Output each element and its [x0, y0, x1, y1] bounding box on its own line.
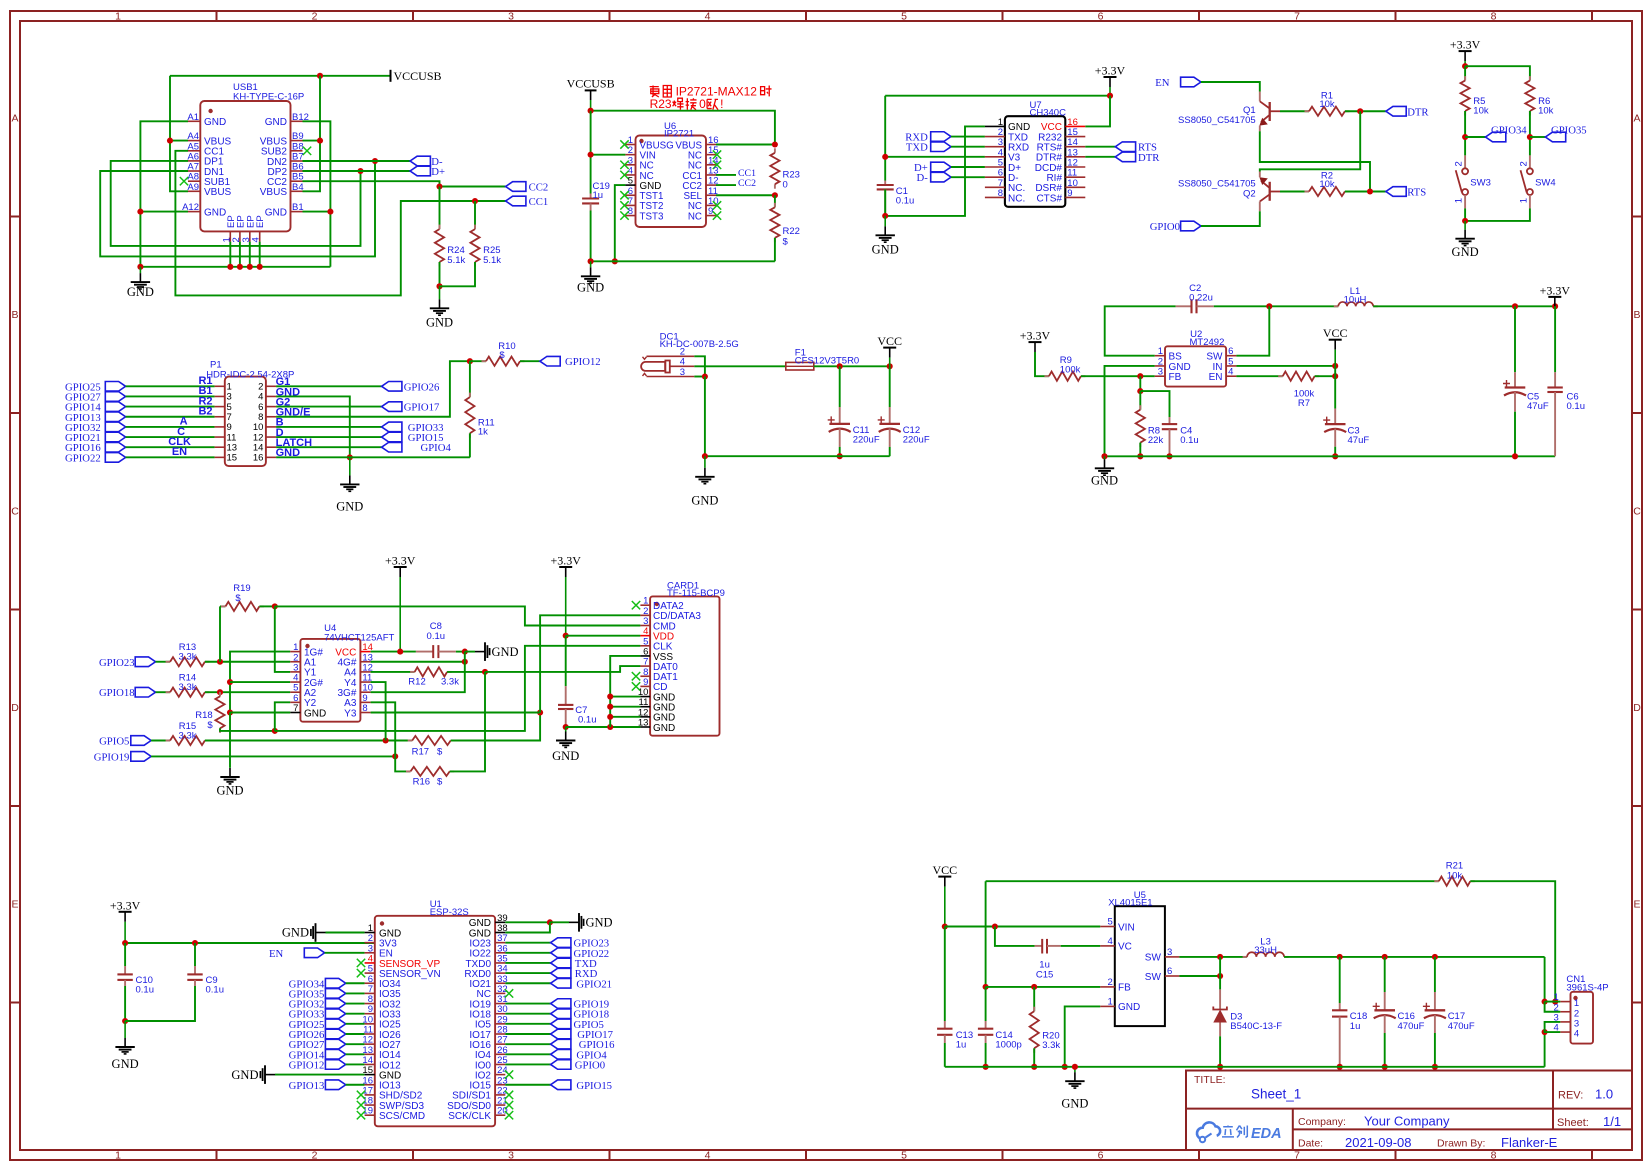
resistor R20 3.3k [1033, 987, 1035, 1011]
capacitor C2 0.22u [1176, 305, 1192, 307]
wire VCC pin14 [371, 651, 416, 653]
svg-text:GND: GND [127, 285, 154, 299]
diode D3 B540C-13-F [1219, 989, 1221, 1010]
svg-text:GPIO5: GPIO5 [99, 736, 129, 748]
svg-text:7: 7 [1294, 11, 1300, 23]
resistor R14 3.3k [156, 691, 171, 693]
svg-text:$: $ [437, 776, 443, 787]
svg-text:Drawn By:: Drawn By: [1437, 1138, 1485, 1150]
wire VCC to VIN [945, 926, 1101, 928]
svg-text:GPIO13: GPIO13 [289, 1080, 325, 1092]
net flag GPIO15 (ESP32 pin 23) [505, 1084, 550, 1086]
wire B5 CC2 [303, 181, 506, 186]
svg-text:GPIO35: GPIO35 [1551, 125, 1587, 137]
capacitor C19 1u [590, 194, 592, 199]
svg-text:+3.3V: +3.3V [1095, 64, 1126, 78]
svg-text:VBUS: VBUS [260, 187, 288, 198]
net flag D- [410, 156, 430, 166]
svg-text:7: 7 [293, 703, 298, 714]
svg-text:Y3: Y3 [344, 708, 357, 719]
wire DC1 pin2 [694, 356, 705, 376]
wire B7 DN2 [303, 160, 411, 162]
svg-text:SCK/CLK: SCK/CLK [448, 1111, 491, 1122]
svg-text:R7: R7 [1298, 398, 1310, 409]
svg-text:A: A [1633, 113, 1640, 125]
svg-text:GND: GND [552, 749, 579, 763]
svg-text:KH-TYPE-C-16P: KH-TYPE-C-16P [233, 91, 304, 102]
svg-text:470uF: 470uF [1398, 1021, 1425, 1032]
wire P1 pin 3 [126, 395, 215, 397]
svg-text:3.3k: 3.3k [441, 676, 459, 687]
wire CN1 pin2 [1545, 1002, 1561, 1012]
svg-text:5: 5 [901, 11, 907, 23]
ground GND (CC resistors) [439, 286, 441, 299]
wire B12 GND [303, 121, 331, 266]
resistor R17 $ [408, 740, 413, 742]
svg-text:R12: R12 [408, 676, 425, 687]
wire Q1 emitter to RTS [1260, 131, 1370, 191]
svg-text:47uF: 47uF [1348, 435, 1370, 446]
svg-text:RTS: RTS [1407, 187, 1426, 199]
wire C2 to SW node [1214, 305, 1339, 307]
net flag GPIO12 [540, 356, 560, 366]
net flag GPIO18 (ESP32 pin 30) [505, 1013, 550, 1015]
wire CC1 net A5 [175, 151, 505, 296]
svg-text:2: 2 [312, 11, 318, 23]
svg-text:5.1k: 5.1k [447, 255, 465, 266]
wire GND pins 39/38 [505, 921, 550, 923]
svg-text:220uF: 220uF [853, 435, 880, 446]
wire FB pin2 [986, 986, 1101, 988]
connector USB1 KH-TYPE-C-16P [200, 101, 290, 231]
resistor R5 10k [1464, 76, 1466, 81]
svg-text:+3.3V: +3.3V [550, 554, 581, 568]
svg-text:Date:: Date: [1298, 1138, 1323, 1150]
svg-text:SS8050_C541705: SS8050_C541705 [1178, 115, 1256, 126]
resistor R10 $ [470, 360, 486, 362]
svg-text:ESP-32S: ESP-32S [430, 907, 469, 918]
junction R10/R11 node [467, 358, 473, 364]
svg-text:0.1u: 0.1u [1180, 435, 1199, 446]
svg-text:8: 8 [998, 188, 1003, 199]
svg-text:4: 4 [705, 11, 711, 23]
svg-text:C: C [11, 506, 19, 518]
svg-text:$: $ [207, 720, 213, 731]
svg-text:GPIO18: GPIO18 [99, 687, 135, 699]
wire GPIO19 to A3 [151, 755, 395, 757]
svg-text:IP2721: IP2721 [664, 128, 694, 139]
wire +3.3V to R9 [1035, 352, 1049, 376]
IC U2 MT2492 [1165, 346, 1226, 386]
wire VBUS right vertical [319, 76, 321, 141]
svg-text:5: 5 [901, 1150, 907, 1162]
svg-text:GND: GND [1091, 473, 1118, 487]
svg-text:GPIO15: GPIO15 [576, 1080, 612, 1092]
capacitor C7 0.1u [565, 636, 567, 686]
wire A1 GND [140, 121, 188, 266]
svg-text:10k: 10k [1538, 105, 1554, 116]
ground GND (ESP32 caps) [124, 1021, 126, 1038]
svg-text:GND: GND [231, 1068, 258, 1082]
svg-text:EN: EN [269, 948, 284, 960]
wire Y2 bus to CLK [275, 646, 641, 731]
svg-text:TITLE:: TITLE: [1194, 1074, 1226, 1086]
wire +3.3V to 3V3 pin2 [125, 942, 375, 944]
ground flag GND (C8) [465, 651, 475, 653]
svg-text:CC2: CC2 [529, 182, 549, 194]
net flag GPIO22 (ESP32 pin 36) [505, 952, 550, 954]
net flag RXD (ESP32 pin 34) [505, 972, 550, 974]
svg-text:GPIO26: GPIO26 [404, 381, 440, 393]
resistor R7 100k [1236, 375, 1282, 377]
switch SW4 [1529, 155, 1531, 168]
svg-text:+3.3V: +3.3V [1540, 283, 1571, 297]
svg-text:GND: GND [653, 723, 675, 734]
wire CN1 pin1 [1545, 1001, 1561, 1003]
svg-text:1/1: 1/1 [1603, 1114, 1621, 1129]
capacitor C6 0.1u [1554, 306, 1556, 372]
svg-text:1u: 1u [1350, 1021, 1361, 1032]
wire left vertical to C19 [590, 111, 592, 194]
net flag GPIO16 (ESP32 pin 27) [505, 1043, 550, 1045]
svg-text:2: 2 [312, 1150, 318, 1162]
wire P1 pin 11 [126, 436, 215, 438]
wire P1 pin 9 [126, 426, 215, 428]
ground GND (U4) [229, 767, 231, 768]
svg-text:1: 1 [115, 11, 121, 23]
ground GND (USB) [139, 267, 141, 273]
wire B1 GND [303, 211, 331, 213]
net flag D+ [410, 166, 430, 176]
wire DP1 A6 to D+ [111, 161, 361, 246]
wire GND vertical (U4) [229, 713, 231, 768]
svg-text:GND: GND [282, 926, 309, 940]
svg-text:VIN: VIN [1118, 922, 1135, 933]
svg-text:3.3k: 3.3k [179, 731, 197, 742]
svg-text:CC2: CC2 [738, 178, 756, 189]
svg-text:SW3: SW3 [1470, 177, 1491, 188]
svg-text:B: B [1633, 309, 1640, 321]
svg-text:GND: GND [304, 708, 326, 719]
svg-text:TF-115-BCP9: TF-115-BCP9 [667, 588, 725, 599]
wire L3 to output [1284, 956, 1545, 958]
svg-text:4: 4 [251, 237, 262, 242]
wire BS pin1 to C2 [1105, 306, 1176, 355]
svg-text:6: 6 [1098, 1150, 1104, 1162]
svg-text:3: 3 [1167, 947, 1172, 958]
svg-text:4: 4 [1228, 367, 1233, 378]
IC U7 CH340C [1005, 116, 1065, 207]
svg-text:CC1: CC1 [529, 196, 549, 208]
svg-text:33uH: 33uH [1254, 945, 1277, 956]
svg-text:B12: B12 [292, 112, 309, 123]
svg-text:VCC: VCC [1323, 326, 1348, 340]
resistor R25 5.1k [474, 201, 476, 229]
svg-text:Your Company: Your Company [1364, 1114, 1450, 1129]
wire Y3 pin8 / CD-DATA3 [371, 712, 540, 714]
ground GND (P1) [349, 457, 351, 475]
svg-text:GPIO0: GPIO0 [575, 1059, 605, 1071]
svg-text:0.22u: 0.22u [1189, 293, 1213, 304]
svg-text:GND: GND [872, 242, 899, 256]
svg-text:3.3k: 3.3k [179, 652, 197, 663]
svg-text:3: 3 [508, 11, 514, 23]
svg-text:15: 15 [227, 453, 238, 464]
svg-text:R22: R22 [783, 226, 800, 237]
svg-text:GND: GND [586, 916, 613, 930]
ground GND (switches) [1464, 221, 1466, 230]
wire 4G#/3G# tie [371, 661, 465, 663]
svg-text:TST3: TST3 [640, 211, 665, 222]
svg-text:2: 2 [1454, 161, 1465, 166]
net flag GPIO0 (ESP32 pin 25) [505, 1063, 550, 1065]
wire VCCUSB to R23 top [591, 111, 775, 145]
resistor R8 22k [1139, 391, 1141, 410]
svg-text:A12: A12 [182, 202, 199, 213]
fuse F1 CFS12V3T5R0 [786, 362, 814, 370]
svg-text:R17: R17 [412, 746, 429, 757]
resistor R1 10k [1280, 110, 1309, 112]
svg-text:5: 5 [1108, 917, 1113, 928]
wire DC1 pin4 to fuse [694, 365, 786, 367]
IC U5 XL4015E1 [1115, 906, 1165, 1026]
svg-text:GND: GND [426, 315, 453, 329]
svg-text:Q2: Q2 [1243, 189, 1256, 200]
wire CN1 pin3/pin4 [1545, 1022, 1561, 1032]
svg-text:GPIO0: GPIO0 [1150, 221, 1180, 233]
svg-text:VC: VC [1118, 942, 1132, 953]
resistor R24 5.1k [439, 187, 441, 230]
svg-text:1u: 1u [593, 190, 604, 201]
wire R19 to CMD [275, 606, 641, 625]
net flag GPIO19 (ESP32 pin 31) [505, 1003, 550, 1005]
svg-text:GPIO34: GPIO34 [1491, 125, 1527, 137]
IC U6 IP2721 [636, 136, 707, 228]
svg-text:$: $ [235, 593, 241, 604]
svg-text:EN: EN [1209, 372, 1223, 383]
svg-text:3.3k: 3.3k [179, 682, 197, 693]
capacitor C4 0.1u [1169, 417, 1171, 424]
wire A4 to DAT0 [485, 666, 640, 672]
svg-text:GPIO4: GPIO4 [421, 442, 452, 454]
svg-text:FB: FB [1169, 372, 1182, 383]
net flag GPIO34 [1465, 136, 1485, 138]
svg-text:1000p: 1000p [995, 1040, 1021, 1051]
svg-text:1.0: 1.0 [1595, 1087, 1613, 1102]
svg-text:1k: 1k [478, 427, 488, 438]
svg-text:$: $ [499, 350, 505, 361]
svg-text:1: 1 [1519, 198, 1530, 203]
net flag GPIO23 (ESP32 pin 37) [505, 942, 550, 944]
power flag VCCUSB [390, 70, 392, 82]
svg-text:47uF: 47uF [1527, 401, 1549, 412]
resistor R15 3.3k [151, 740, 170, 742]
transistor Q2 SS8050 [1259, 172, 1261, 178]
no-connect marks (ESP32) [357, 959, 365, 967]
wire bottom GND [591, 260, 775, 262]
wire P1 pin14 LATCH / net flag GPIO4 [276, 446, 382, 448]
capacitor C18 1u [1339, 957, 1341, 1003]
svg-text:SW: SW [1145, 972, 1162, 983]
svg-text:4: 4 [1108, 936, 1113, 947]
svg-text:10k: 10k [1319, 179, 1335, 190]
wire P1 pin10 B / net flag GPIO33 [276, 426, 382, 428]
capacitor C15 1u [995, 927, 1035, 946]
transistor Q1 SS8050 [1259, 92, 1261, 102]
svg-text:VBUS: VBUS [204, 187, 232, 198]
svg-text:9: 9 [708, 206, 713, 217]
EP pins [229, 231, 231, 241]
wire P1 pin6 G2 / net flag GPIO17 [276, 406, 382, 408]
svg-text:6: 6 [1167, 966, 1172, 977]
wire P1 pin8 GND/E to R10 node [276, 361, 470, 417]
resistor R12 3.3k [371, 671, 415, 673]
junction VCCUSB/B9 [317, 73, 323, 79]
net flag GPIO17 (ESP32 pin 28) [505, 1033, 550, 1035]
svg-text:GND: GND [204, 207, 226, 218]
svg-text:B540C-13-F: B540C-13-F [1230, 1021, 1282, 1032]
net flag GPIO4 (ESP32 pin 26) [505, 1053, 550, 1055]
wire GND bus [140, 266, 330, 268]
wire switches to GND [1464, 208, 1466, 221]
svg-text:+3.3V: +3.3V [385, 554, 416, 568]
svg-text:A1: A1 [187, 112, 199, 123]
svg-text:GPIO12: GPIO12 [565, 356, 601, 368]
net label CC2 (U6 pin12) [716, 184, 736, 186]
svg-text:4: 4 [1574, 1029, 1579, 1040]
svg-text:XL4015E1: XL4015E1 [1108, 897, 1152, 908]
wire FB to R8/C4 [1139, 376, 1141, 391]
svg-text:GND: GND [336, 499, 363, 513]
wire VDD pin4 [566, 635, 641, 637]
capacitor C8 0.1u [416, 651, 433, 653]
svg-text:SW: SW [1145, 953, 1162, 964]
svg-text:D-: D- [917, 172, 929, 184]
svg-text:3: 3 [680, 367, 685, 378]
wire SEL pin11 [716, 194, 775, 196]
capacitor C16 470uF [1384, 957, 1386, 992]
svg-text:8: 8 [1491, 1150, 1497, 1162]
svg-text:GND: GND [265, 207, 287, 218]
svg-text:E: E [1633, 899, 1640, 911]
svg-text:3961S-4P: 3961S-4P [1566, 983, 1608, 994]
wire L1 to +3.3V out [1373, 305, 1555, 307]
svg-text:EN: EN [1155, 77, 1170, 89]
switch SW3 [1464, 155, 1466, 168]
svg-text:B: B [11, 309, 18, 321]
svg-text:GND: GND [265, 117, 287, 128]
net flag GPIO5 (ESP32 pin 29) [505, 1023, 550, 1025]
svg-text:C15: C15 [1036, 970, 1053, 981]
svg-text:GND: GND [216, 784, 243, 798]
svg-text:VCCUSB: VCCUSB [394, 69, 442, 83]
resistor R23 0 [774, 148, 776, 153]
svg-text:DTR: DTR [1407, 106, 1429, 118]
wire VBUS left vertical [170, 76, 188, 192]
svg-text:TXD: TXD [906, 142, 928, 154]
svg-text:SW4: SW4 [1535, 177, 1556, 188]
svg-text:SCS/CMD: SCS/CMD [379, 1111, 425, 1122]
inductor L1 10uH [1334, 305, 1339, 307]
wire GND bus (buck) [1105, 455, 1556, 457]
svg-text:GND: GND [1452, 245, 1479, 259]
svg-text:Flanker-E: Flanker-E [1501, 1135, 1558, 1150]
capacitor C10 0.1u [124, 943, 126, 966]
net flag TXD [931, 142, 951, 152]
wire VSS/GND tie (CARD1) [610, 656, 640, 727]
svg-text:Sheet:: Sheet: [1557, 1117, 1589, 1129]
svg-text:16: 16 [253, 453, 264, 464]
svg-text:0: 0 [699, 97, 706, 111]
resistor R21 10k [1434, 880, 1439, 882]
IC U1 ESP-32S [375, 916, 495, 1127]
svg-text:GPIO22: GPIO22 [65, 452, 101, 464]
wire +3.3V to R5/R6 [1464, 66, 1466, 80]
title block [1186, 1071, 1632, 1151]
ground GND (U6) [590, 261, 592, 267]
net flag DTR (Q1) [1386, 106, 1406, 116]
svg-text:CFS12V3T5R0: CFS12V3T5R0 [795, 356, 859, 367]
connector CN1 3961S-4P [1571, 992, 1594, 1044]
svg-text:EP: EP [255, 215, 266, 228]
svg-text:$: $ [783, 236, 789, 247]
net flag D+ (CH340) [931, 162, 951, 172]
svg-text:6: 6 [1098, 11, 1104, 23]
annotation red chinese text [650, 86, 659, 98]
svg-text:B4: B4 [292, 182, 304, 193]
wire VCCUSB top [170, 75, 390, 77]
wire R6 to SW4 [1529, 111, 1531, 155]
net flag GPIO35 [1530, 136, 1546, 138]
svg-text:1: 1 [1108, 996, 1113, 1007]
svg-text:GND: GND [492, 645, 519, 659]
svg-text:4: 4 [705, 1150, 711, 1162]
wire SW pins to diode node [1179, 956, 1247, 958]
wire GND pin2 [1105, 366, 1155, 456]
svg-text:A: A [11, 113, 18, 125]
svg-text:NC: NC [688, 211, 702, 222]
svg-text:0.1u: 0.1u [136, 985, 155, 996]
resistor R22 $ [774, 195, 776, 207]
svg-text:A9: A9 [187, 182, 199, 193]
resistor R18 $ [219, 692, 221, 696]
wire +3.3V to VCC pin16 [885, 95, 1110, 97]
wire GND pin1 (U5) [1065, 1006, 1101, 1066]
svg-text:B1: B1 [292, 202, 304, 213]
svg-text:13: 13 [638, 718, 649, 729]
wire P1 pin 7 [126, 416, 215, 418]
wire GND bus (DC input) [704, 377, 706, 457]
ground flag GND (pin39) [550, 921, 569, 923]
svg-text:CH340C: CH340C [1030, 108, 1067, 119]
svg-text:KH-DC-007B-2.5G: KH-DC-007B-2.5G [660, 339, 739, 350]
svg-text:DTR: DTR [1138, 152, 1160, 164]
net flag TXD (ESP32 pin 35) [505, 962, 550, 964]
svg-text:0: 0 [783, 180, 788, 191]
svg-text:470uF: 470uF [1448, 1021, 1475, 1032]
capacitor C11 220uF [839, 366, 841, 407]
svg-text:1: 1 [1454, 198, 1465, 203]
wire VBUS pin16 [716, 144, 775, 146]
resistor R11 1k [469, 361, 471, 397]
wire R5 to SW3 [1464, 111, 1466, 155]
ground GND (CARD1) [565, 727, 567, 732]
wire B6 DP2 [303, 170, 411, 172]
wire IN pin5 to VCC [1236, 365, 1335, 367]
wire R21 top [986, 880, 1439, 882]
no-connect CARD1 pins 1,8,9 [632, 601, 640, 609]
svg-text:EN: EN [172, 446, 187, 458]
